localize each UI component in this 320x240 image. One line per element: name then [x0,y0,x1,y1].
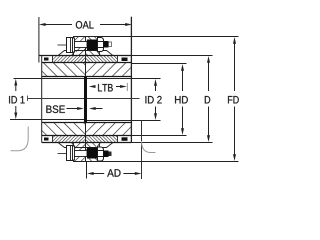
left sleeve end + OAL extension [38,17,40,63]
flange joint vertical line [85,37,87,162]
shaft top/bottom lines left (also ID 1 extension lines) [10,79,84,120]
seal box left bottom [44,136,53,143]
shaft ends gap (center dark double line) [84,77,87,123]
shaft top/bottom lines right (also ID 2 extension lines) [87,79,161,121]
dimension FD [100,37,239,162]
hub 1 hatch (left, upper and lower) [42,63,86,135]
bolt centerline dash [58,44,67,46]
flange pedestal top (flared base on sleeve) [58,51,113,56]
dimension ID 2 [145,79,161,120]
bolt tip nub [109,42,112,47]
flange plates (center, hatched) [74,37,100,162]
dimension OAL [39,21,132,29]
washer under head [73,146,75,160]
top bolt assembly [58,38,112,53]
body horizontal outlines: sleeve OD, hub OD, bore lines [39,56,131,143]
seal box right top [118,56,128,63]
lock washer (rounded) [98,38,104,52]
sleeve lower wall hatch [53,136,118,142]
sleeve upper wall hatch (band A) [53,56,118,62]
hex head [67,38,73,53]
bolt end (black square) [104,151,109,158]
dimension ID 1 [9,79,24,119]
nut (solid black) [87,40,98,51]
centerline end tick [27,96,29,102]
bolt shank [75,151,88,157]
dimension HD [131,64,187,136]
hub 2 hatch (right, upper and lower) [86,63,131,135]
seal box right bottom [118,136,128,143]
flange pedestal bottom [58,143,113,148]
bolt end (black square) [104,41,109,48]
horizontal centerline [28,98,140,100]
dimension LTB [89,83,128,91]
dimension D [131,56,212,143]
bolt tip nub [109,152,112,157]
hex head [67,146,73,161]
lock washer (rounded) [98,147,104,161]
bolt centerline dash [58,153,67,155]
shaft break curve left [11,127,29,151]
AD left extension line [86,162,88,179]
bottom bolt assembly [58,146,112,162]
nut (solid black) [87,148,98,159]
left hub face [41,56,43,143]
dimension BSE label and arrow [46,105,102,113]
right face + OAL extension [130,17,132,143]
shaft break curve right [142,141,156,153]
AD right extension line / shaft end [141,121,143,180]
BSE right tail arrow [95,108,103,110]
seal box left top [44,56,53,63]
bolt shank (white band through flange) [75,42,88,48]
washer under head [73,38,75,52]
dimension AD [87,121,142,180]
